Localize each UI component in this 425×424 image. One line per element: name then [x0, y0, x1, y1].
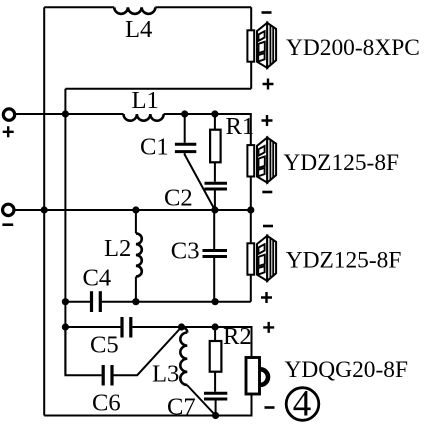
wire mid rail y88.8 — [65, 88, 251, 90]
svg-text:4: 4 — [293, 384, 312, 424]
capacitor C3 — [171, 210, 227, 302]
terminal plus — [3, 109, 17, 137]
capacitor C7 — [167, 393, 227, 420]
svg-text:YDZ125-8F: YDZ125-8F — [286, 248, 402, 274]
wire bottom rail — [44, 395, 251, 416]
svg-text:YDZ125-8F: YDZ125-8F — [283, 150, 399, 176]
node C2 bottom — [211, 206, 218, 213]
node speaker junction — [247, 206, 254, 213]
inductor L3 — [152, 327, 187, 388]
svg-text:C5: C5 — [90, 332, 119, 359]
inductor L4 — [114, 7, 155, 14]
sign spk2 plus — [261, 292, 272, 303]
svg-text:L4: L4 — [125, 16, 152, 43]
wire top rail — [44, 6, 251, 8]
resistor R1 — [210, 113, 254, 182]
node C3 bottom — [212, 298, 219, 305]
svg-text:C2: C2 — [164, 184, 193, 211]
speaker U2 YDZ125-8F — [247, 138, 276, 183]
figure number circle 4 — [286, 384, 319, 424]
sign YD200 plus — [263, 79, 274, 90]
wire riser x65.4 — [64, 89, 66, 375]
svg-text:C4: C4 — [83, 265, 112, 292]
node L2 bottom — [132, 298, 139, 305]
sign YD200 minus — [262, 11, 272, 14]
speaker U3 YDZ125-8F — [247, 236, 276, 281]
sign spk2 minus — [263, 225, 273, 228]
node minus-bus — [41, 206, 48, 213]
node R2 top — [212, 323, 219, 330]
wire C4 rail y301.7 — [65, 301, 250, 303]
wire C5 rail y327 — [65, 327, 251, 357]
resistor R2 — [210, 323, 252, 392]
node C7 bottom — [212, 412, 219, 419]
capacitor C5 — [90, 317, 131, 359]
sign spk1 plus — [262, 115, 273, 126]
svg-text:C1: C1 — [140, 134, 169, 161]
wire minus input line — [15, 209, 251, 211]
capacitor C6 — [92, 365, 121, 417]
inductor L2 — [104, 210, 142, 302]
tweeter YDQG20-8F — [246, 358, 268, 395]
wire YDZ125 no2 branch — [250, 210, 252, 302]
svg-text:L2: L2 — [104, 235, 131, 262]
node C4 left — [62, 298, 69, 305]
svg-text:C3: C3 — [171, 238, 200, 265]
wire YD200 speaker branch — [250, 7, 252, 89]
sign spk1 minus — [262, 191, 272, 194]
svg-text:C6: C6 — [92, 390, 121, 417]
svg-text:R2: R2 — [223, 323, 252, 350]
svg-text:YDQG20-8F: YDQG20-8F — [285, 357, 408, 383]
inductor L1 — [124, 114, 164, 121]
wire C6 line y375.2 — [65, 327, 181, 375]
speaker U1 YD200-8XPC — [247, 23, 276, 68]
node R1 top — [211, 110, 218, 117]
node junction plus-input — [62, 110, 69, 117]
wire C1 diagonal — [185, 155, 215, 210]
wire L3 diagonal — [187, 385, 216, 416]
capacitor C1 — [140, 114, 196, 161]
node L2 top — [132, 206, 139, 213]
svg-text:L1: L1 — [132, 87, 159, 114]
svg-text:YD200-8XPC: YD200-8XPC — [286, 35, 420, 61]
sign tweeter plus — [263, 322, 274, 333]
svg-text:L3: L3 — [152, 361, 179, 388]
capacitor C4 — [83, 265, 112, 313]
node L3 top — [178, 323, 185, 330]
node C1 top — [181, 110, 188, 117]
node C5 left — [62, 323, 69, 330]
wire plus input line — [16, 114, 250, 210]
terminal minus — [2, 204, 14, 225]
wire left vertical bus — [43, 7, 45, 415]
svg-text:R1: R1 — [226, 113, 255, 140]
capacitor C2 — [164, 183, 227, 211]
sign tweeter minus — [265, 406, 275, 409]
